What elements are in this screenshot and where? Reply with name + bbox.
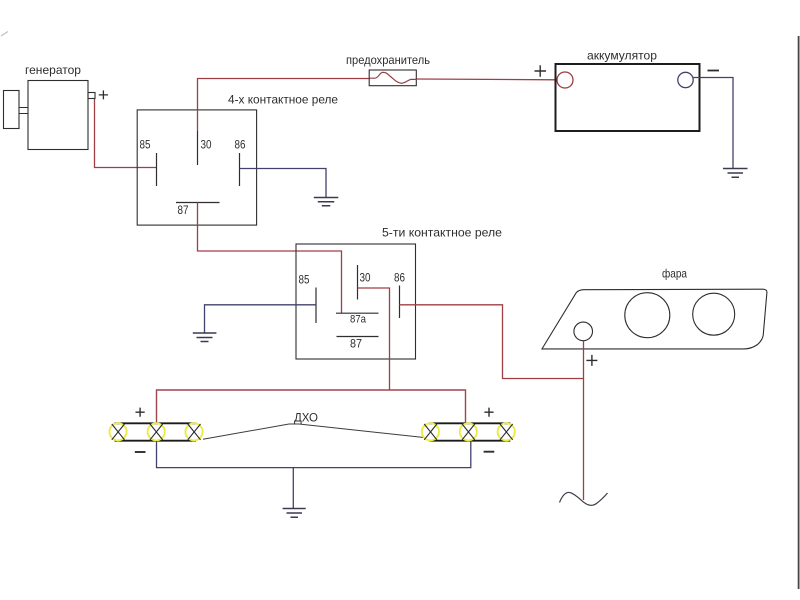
wire K2 pin 86 to headlight plus (red) (400, 305, 584, 379)
frame line right edge (798, 36, 800, 589)
K1 pin 30 (197, 131, 199, 165)
K2 pin 87a (336, 312, 379, 314)
svg-text:30: 30 (201, 138, 212, 152)
DRL left lamp 1 (109, 423, 126, 440)
svg-text:5-ти контактное реле: 5-ти контактное реле (382, 226, 502, 240)
ground at DRL (283, 509, 306, 518)
svg-text:30: 30 (360, 271, 371, 285)
headlight body (542, 289, 767, 349)
fuse body (369, 70, 416, 86)
ground at K2 pin 85 (193, 333, 217, 342)
DRL minus rail (blue) (157, 441, 471, 468)
wire K1 pin 87 to K2 pin 87a (red) (198, 203, 342, 314)
DRL left lamp 2 (148, 423, 165, 440)
svg-text:аккумулятор: аккумулятор (587, 49, 657, 63)
DRL left lamp 3 (185, 423, 202, 440)
battery body (556, 64, 700, 131)
headlight small lamp (574, 322, 593, 341)
DRL right strip rails (429, 423, 510, 440)
battery plus sign (535, 65, 547, 76)
svg-text:фара: фара (662, 267, 687, 281)
battery minus terminal (blue circle) (678, 72, 693, 87)
DRL pointer line (203, 424, 424, 439)
wire battery minus to ground (blue) (693, 78, 733, 169)
K1 pin 87 (176, 202, 220, 204)
wire generator plus to relay K1 pin 85 (red) (95, 99, 157, 168)
DRL right lamp 2 (460, 423, 477, 440)
generator plus sign (99, 90, 108, 99)
svg-text:85: 85 (299, 273, 310, 287)
wire K2 pin 30 to DRL plus rail (red) (358, 288, 390, 390)
svg-text:86: 86 (394, 271, 405, 285)
wire K1 pin 30 to fuse (red) (198, 79, 371, 132)
svg-text:ДХО: ДХО (294, 411, 318, 425)
wire K1 pin 86 to ground (blue) (240, 169, 327, 198)
K1 pin 85 (156, 153, 158, 186)
svg-text:предохранитель: предохранитель (346, 53, 430, 67)
K1 pin 86 (239, 153, 241, 186)
headlight big lamp 2 (693, 293, 735, 335)
svg-text:87: 87 (178, 203, 189, 217)
svg-text:87а: 87а (350, 314, 367, 326)
wire fuse to battery plus (red) (417, 78, 558, 81)
wire headlight plus down to break (red) (583, 341, 585, 500)
DRL right strip minus sign (484, 451, 495, 453)
svg-text:86: 86 (235, 138, 246, 152)
battery plus terminal (red circle) (557, 72, 573, 88)
battery minus sign (708, 70, 720, 72)
headlight big lamp 1 (625, 293, 670, 338)
relay K1 body (137, 110, 256, 225)
headlight plus sign (586, 355, 597, 366)
generator coupling lines (19, 108, 28, 114)
wire K2 pin 85 to ground (blue) (205, 305, 317, 333)
generator side block (4, 91, 20, 129)
scratch mark top-left (1, 32, 8, 37)
K2 pin 86 (399, 286, 401, 319)
ground at battery (723, 169, 748, 178)
relay K2 body (296, 244, 416, 359)
DRL left strip rails (115, 423, 197, 440)
DRL right lamp 1 (422, 423, 439, 440)
wire DRL minus rail to ground (blue) (292, 468, 294, 508)
K2 pin 85 (315, 288, 317, 324)
wire break squiggle (560, 492, 608, 505)
generator body (28, 81, 88, 150)
DRL plus rail (red) (157, 390, 466, 423)
svg-text:87: 87 (350, 337, 362, 351)
ground at K1 pin 86 (314, 198, 339, 206)
svg-text:85: 85 (140, 138, 151, 152)
DRL left strip plus sign (136, 408, 145, 417)
DRL left strip minus sign (135, 451, 146, 453)
K2 pin 30 (357, 265, 359, 300)
svg-text:4-х контактное реле: 4-х контактное реле (228, 93, 338, 107)
svg-text:генератор: генератор (25, 63, 81, 77)
DRL right strip plus sign (484, 408, 493, 417)
generator output terminal (88, 93, 95, 99)
fuse element (red wave) (369, 72, 416, 83)
DRL right lamp 3 (498, 423, 515, 440)
K2 pin 87 (337, 336, 379, 338)
